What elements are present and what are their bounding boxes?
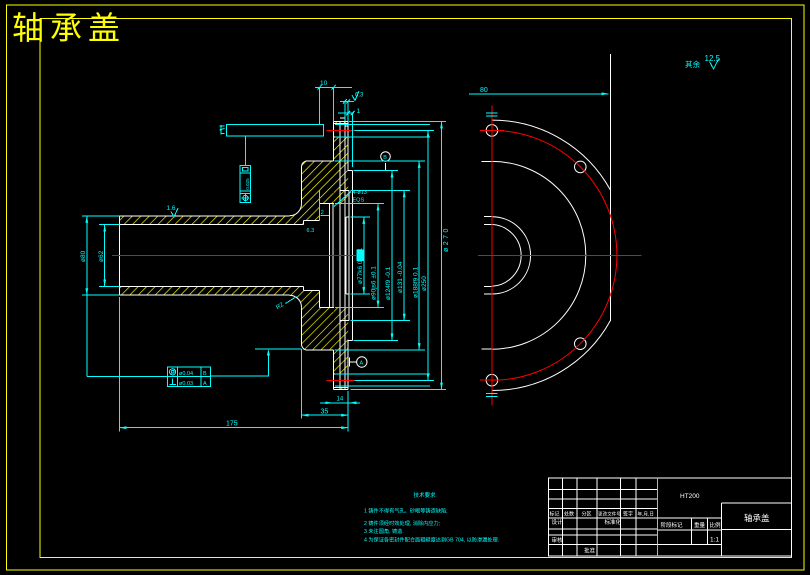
title block outline	[548, 478, 791, 556]
svg-text:80: 80	[480, 87, 488, 94]
outer arc top	[492, 120, 610, 190]
dim 10 ext lines	[320, 87, 334, 220]
rim groove line 1	[339, 121, 341, 389]
dim 1 ext line	[352, 113, 354, 167]
bolt hole tick top	[480, 129, 504, 131]
svg-text:分区: 分区	[582, 510, 592, 517]
svg-text:更改文件号: 更改文件号	[598, 510, 621, 517]
sleeve outer top line	[120, 215, 290, 217]
bolt hole top edges	[334, 124, 349, 137]
leader R2	[286, 297, 297, 304]
left grid horizontal lines	[548, 490, 657, 545]
svg-text:HT200: HT200	[680, 493, 700, 500]
dim od80 ext lines	[82, 216, 120, 295]
svg-text:ø0.04: ø0.04	[179, 371, 193, 377]
dim 1 ticks	[346, 111, 354, 116]
svg-text:ø90js6 ±0.1: ø90js6 ±0.1	[371, 266, 378, 300]
svg-text:标记: 标记	[550, 510, 560, 517]
bolt hole circle lower right	[575, 338, 587, 350]
hatch boss bottom sliver	[334, 308, 348, 321]
flat edge line	[609, 54, 611, 321]
svg-text:14: 14	[337, 397, 344, 403]
svg-text:批准: 批准	[584, 546, 596, 554]
od dim flange shared	[441, 121, 443, 389]
od dim 5	[418, 161, 420, 350]
sleeve bore bottom line	[120, 285, 304, 287]
svg-text:1:1: 1:1	[710, 537, 719, 544]
svg-text:2 铸件须经时效处理, 消除内应力;: 2 铸件须经时效处理, 消除内应力;	[364, 519, 440, 527]
check symbol	[710, 59, 719, 69]
hatch rim top sliver	[334, 121, 349, 123]
svg-text:设计: 设计	[552, 518, 564, 526]
svg-text:ø62: ø62	[98, 250, 105, 262]
svg-text:ø270: ø270	[443, 226, 450, 252]
svg-text:0.025: 0.025	[245, 178, 250, 190]
svg-text:B: B	[383, 155, 387, 161]
tolerance link line	[87, 375, 168, 377]
bolt hole circle bottom	[486, 374, 498, 386]
dim y101 ticks	[343, 99, 350, 104]
main centerline	[112, 254, 356, 256]
tolerance frame glyphs	[170, 369, 176, 375]
svg-text:ø124f9 -0.1: ø124f9 -0.1	[385, 266, 392, 300]
sleeve left end face	[119, 216, 121, 295]
svg-text:阶段标记: 阶段标记	[661, 521, 684, 529]
rim left face bottom	[333, 350, 335, 390]
rim bottom edge	[334, 389, 349, 391]
hatch sleeve bottom wall	[120, 286, 302, 307]
hub bottom ext line	[255, 348, 301, 350]
spigot edges	[346, 217, 349, 294]
svg-text:10: 10	[320, 80, 328, 87]
svg-text:标准化: 标准化	[605, 518, 622, 526]
bolt hole circle upper right	[575, 161, 587, 173]
inner arc overhangs	[484, 217, 492, 294]
svg-text:其余: 其余	[685, 59, 700, 69]
boss ring edges	[348, 171, 352, 341]
dim 14 lines with outside arrows	[320, 402, 332, 404]
svg-text:技术要求: 技术要求	[414, 491, 437, 499]
hatch hub bottom right	[320, 308, 334, 351]
hub left face bottom	[302, 307, 308, 350]
hatch sleeve top wall	[120, 204, 302, 225]
tolerance frame box	[168, 367, 211, 387]
svg-text:EQS: EQS	[353, 198, 365, 204]
svg-text:ø131 -0.04: ø131 -0.04	[397, 261, 404, 293]
svg-text:1: 1	[357, 108, 361, 115]
sleeve bore top line	[120, 224, 304, 226]
fillet bottom	[290, 295, 302, 307]
rim left face top	[333, 121, 335, 160]
vertical centerline	[491, 105, 493, 405]
boss outer edges	[340, 190, 349, 320]
bolt hole tick bottom	[480, 379, 500, 381]
sleeve outer bottom line	[120, 294, 290, 296]
dim od80 line	[86, 216, 88, 295]
groove step faces	[319, 203, 321, 307]
svg-text:ø77k6 0.021: ø77k6 0.021	[357, 247, 364, 284]
svg-text:处数: 处数	[564, 510, 574, 517]
bolt circle arc	[492, 130, 617, 380]
dim 175 ext lines	[119, 297, 348, 432]
hatch hub top	[302, 161, 320, 225]
top dimension line	[469, 93, 609, 95]
svg-text:重量: 重量	[694, 521, 706, 529]
svg-text:6.3: 6.3	[307, 228, 315, 234]
hatch rim bottom column	[334, 321, 349, 374]
spigot end face	[348, 190, 350, 320]
rim right face bottom	[347, 341, 349, 390]
boss ring right face	[352, 171, 354, 341]
od dim 2	[377, 203, 379, 307]
spigot chamfer line	[345, 217, 347, 294]
middle arc overhangs	[482, 161, 492, 349]
dim 35 ext line	[301, 349, 303, 419]
left grid vertical lines	[563, 478, 636, 556]
roughness note top right	[685, 54, 721, 69]
inner arc outer	[492, 217, 531, 294]
svg-text:12.5: 12.5	[705, 54, 721, 63]
inner vertical line 2	[332, 203, 334, 307]
svg-text:ø0.03: ø0.03	[179, 381, 193, 387]
groove leader	[334, 192, 351, 207]
outer arc bottom	[492, 321, 610, 391]
dim 175 line	[119, 427, 348, 429]
svg-text:A: A	[203, 381, 207, 387]
svg-text:B: B	[203, 371, 207, 377]
centerline double ticks top	[486, 113, 497, 116]
bolt hole circle top	[486, 125, 498, 137]
svg-text:ø80: ø80	[80, 250, 87, 262]
hatch hub top right	[320, 161, 334, 204]
bolt hole edge ext lines	[335, 125, 430, 387]
dim od80 link down	[86, 295, 88, 376]
bore step faces	[302, 221, 304, 291]
centerline double ticks bottom	[486, 394, 497, 397]
dim 10 line	[315, 86, 352, 88]
middle arc	[492, 161, 586, 349]
svg-text:6.3: 6.3	[355, 93, 364, 99]
svg-text:审核: 审核	[552, 536, 564, 544]
svg-text:ø250: ø250	[421, 276, 428, 291]
dim y101 ext lines	[345, 101, 348, 121]
groove ceiling edges	[320, 203, 334, 307]
svg-text:A: A	[360, 360, 364, 366]
od dim bolt circle	[427, 130, 429, 380]
hatch hub bottom	[302, 286, 320, 350]
hub left face top	[302, 161, 308, 204]
bolt hole projection box	[227, 124, 324, 136]
dim od62 ext lines	[99, 225, 120, 287]
inner vertical line 1	[329, 203, 331, 307]
svg-text:轴承盖: 轴承盖	[12, 10, 126, 46]
rim right face top	[347, 121, 349, 170]
hatch rim top column	[334, 137, 349, 190]
dim od62 line	[104, 225, 106, 287]
svg-text:4-ø13: 4-ø13	[353, 190, 367, 196]
svg-text:2: 2	[321, 210, 324, 216]
dim text blob at centerline end	[357, 250, 365, 262]
datum lollipop top	[381, 152, 391, 162]
svg-text:35: 35	[321, 409, 329, 416]
right block lines	[658, 503, 792, 556]
dim line y101	[340, 100, 354, 102]
horizontal centerline	[478, 254, 642, 256]
hub top edge	[308, 160, 334, 162]
od dim 1	[363, 217, 365, 294]
svg-text:1 铸件不得有气孔、砂眼等铸造缺陷;: 1 铸件不得有气孔、砂眼等铸造缺陷;	[364, 507, 448, 515]
svg-text:轴承盖: 轴承盖	[744, 513, 770, 523]
svg-text:ø188f9 0.1: ø188f9 0.1	[412, 267, 419, 298]
rim top step	[340, 118, 348, 126]
vertical tolerance frame	[240, 166, 250, 203]
dim 10 ticks	[318, 85, 336, 90]
hatch boss top sliver	[334, 190, 348, 203]
svg-text:年,月,日: 年,月,日	[638, 510, 654, 517]
hatch rim bottom sliver	[334, 387, 349, 389]
dim 35 line	[302, 414, 349, 416]
svg-text:3 未注圆角, 铸造.: 3 未注圆角, 铸造.	[364, 527, 404, 535]
hub bottom edge	[308, 349, 334, 351]
roughness 6.3 check	[352, 91, 359, 101]
datum lollipop bottom	[357, 357, 367, 367]
bolt hole centerline top	[327, 129, 355, 131]
fillet top	[290, 204, 302, 216]
svg-text:签字: 签字	[623, 510, 633, 517]
svg-text:4 为保证各密封件配合面粗糙度达到GB 704, 以防渗漏处: 4 为保证各密封件配合面粗糙度达到GB 704, 以防渗漏处理.	[364, 535, 499, 543]
rim top edge	[334, 120, 349, 122]
bolt hole bottom edges	[334, 374, 349, 387]
dim 1 line	[338, 112, 354, 114]
tolerance leader	[211, 353, 269, 376]
od dim 3	[391, 171, 393, 341]
cyan divider	[657, 478, 659, 556]
svg-text:175: 175	[226, 421, 238, 428]
tolerance stem	[244, 136, 246, 166]
bolt hole centerline bottom	[327, 379, 355, 381]
svg-text:比例: 比例	[710, 521, 722, 529]
od dim 4	[403, 190, 405, 320]
rim groove line 2	[344, 121, 346, 389]
inner arc inner	[492, 224, 521, 286]
bore step edges	[303, 221, 319, 291]
svg-text:1.6: 1.6	[167, 205, 176, 212]
